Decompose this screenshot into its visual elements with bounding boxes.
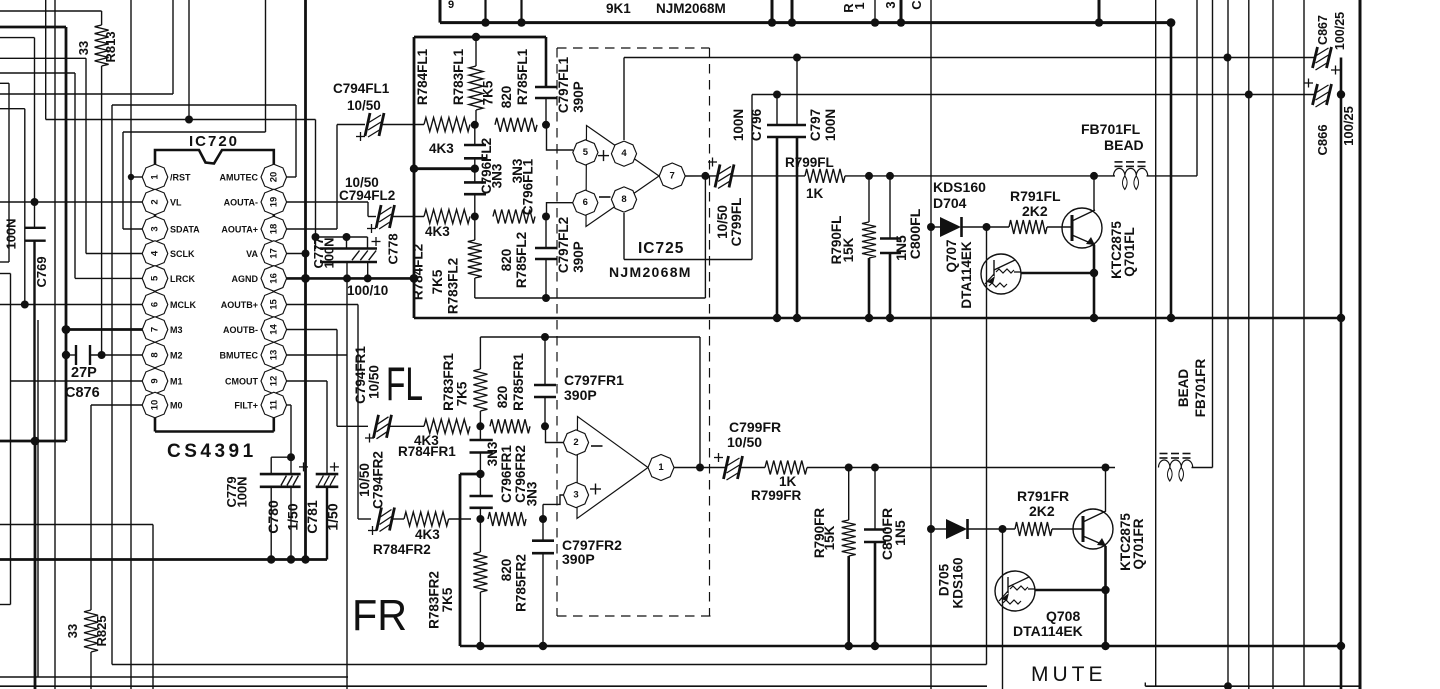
wire pin14 AOUTB- staircase to FR1: [287, 330, 368, 427]
wire right edge trunk x=1360 thick: [1359, 0, 1362, 689]
FR big channel label: [352, 591, 407, 640]
svg-text:R783FL2: R783FL2: [446, 258, 461, 314]
svg-text:C796FL1: C796FL1: [521, 158, 536, 215]
IC720 CS4391 package box: [155, 150, 274, 432]
svg-text:100/25: 100/25: [1341, 106, 1356, 146]
svg-text:2: 2: [150, 199, 161, 204]
IC720 pin 4 SCLK: [142, 241, 195, 267]
wire M1 line x=38: [37, 320, 39, 677]
wire thick drop x=1171: [1170, 23, 1173, 318]
capacitor C794FR1 10/50 electrolytic: [353, 346, 424, 443]
resistor R785FR1 820: [490, 353, 530, 434]
svg-text:R785FL1: R785FL1: [515, 48, 530, 105]
wire FR bead output riser x=1212.5: [1212, 0, 1214, 468]
capacitor C796FR2 3N3: [470, 445, 540, 519]
svg-text:MCLK: MCLK: [170, 300, 196, 310]
wire oct3 input jog: [543, 495, 564, 519]
wire bottom bus y=686.2 right: [1145, 682, 1360, 689]
resistor R799FL 1K: [785, 155, 1115, 201]
resistor R813 33ohm: [76, 11, 118, 66]
svg-text:R825: R825: [94, 615, 109, 646]
svg-text:VL: VL: [170, 198, 182, 208]
upper label fragments at top edge: [448, 0, 924, 13]
wire FL block ground left edge thick x=414: [413, 37, 416, 318]
capacitor C867 100/25 electrolytic: [1313, 12, 1348, 75]
svg-text:1K: 1K: [779, 474, 797, 489]
resistor R799FR 1K: [751, 461, 1115, 504]
svg-text:R785FL2: R785FL2: [514, 232, 529, 288]
svg-text:R783FL1: R783FL1: [451, 48, 466, 105]
svg-text:R784FR2: R784FR2: [373, 542, 431, 557]
svg-text:4K3: 4K3: [425, 224, 450, 239]
capacitor C794FR2 10/50 electrolytic: [357, 451, 404, 535]
upper IC label 9K1 NJM2068M: [606, 1, 726, 16]
svg-text:1: 1: [852, 2, 867, 9]
IC725 pin 7 output: [659, 163, 718, 189]
wire FL analog ground rail y=318 thick: [414, 314, 1345, 322]
junction dot C800FL top: [886, 172, 894, 180]
svg-text:LRCK: LRCK: [170, 274, 195, 284]
svg-text:NJM2068M: NJM2068M: [656, 1, 726, 16]
junction dot thick x=35 y=441: [31, 437, 40, 689]
junction dot FR1 row x=480.4: [476, 422, 484, 430]
svg-text:390P: 390P: [571, 81, 586, 113]
resistor R783FR1 7K5: [441, 337, 487, 426]
svg-text:VA: VA: [246, 249, 258, 259]
svg-text:BMUTEC: BMUTEC: [220, 351, 259, 361]
wire pin11 FILT+ to C779 C780: [271, 405, 295, 474]
capacitor C876 27P on M2 line: [62, 345, 143, 401]
svg-text:/RST: /RST: [170, 173, 191, 183]
transistor Q708 DTA114EK: [995, 571, 1110, 639]
wire pin4 SCLK: [86, 253, 143, 255]
IC720 pin 11 FILT+: [234, 392, 286, 418]
svg-text:10/50: 10/50: [727, 434, 762, 450]
capacitor C866 100/25 electrolytic: [1304, 79, 1356, 156]
svg-text:3N3: 3N3: [485, 441, 500, 466]
svg-text:M1: M1: [170, 377, 183, 387]
svg-text:13: 13: [268, 350, 279, 361]
junction dot FL output x=705.4: [701, 172, 709, 180]
MUTE label: [1031, 663, 1107, 686]
IC720 pin 20 AMUTEC: [220, 164, 287, 190]
junction dot x=189 y=119.5: [185, 0, 193, 124]
op-amp minus sign FR: [591, 445, 603, 447]
wire pin10 M0 via R825: [91, 405, 143, 610]
junction dot FR2 row x=480.4: [476, 515, 484, 523]
resistor R825 33ohm: [65, 610, 109, 689]
resistor R785FL2 820: [493, 210, 535, 289]
wire bottom bus y=686.2 left: [0, 685, 987, 687]
svg-text:10/50: 10/50: [347, 98, 381, 113]
svg-text:4K3: 4K3: [415, 527, 440, 542]
wire net to left edge y=11 feeding R813: [0, 10, 102, 12]
svg-text:3N3: 3N3: [490, 163, 505, 188]
svg-text:FL: FL: [386, 357, 423, 410]
svg-text:KDS160: KDS160: [933, 179, 986, 195]
wire oct6 input jog: [547, 203, 574, 217]
svg-text:3N3: 3N3: [525, 481, 540, 506]
svg-text:100N: 100N: [322, 237, 337, 268]
svg-text:C794FL1: C794FL1: [333, 81, 390, 96]
capacitor C796 100N C797 100N shared plates: [731, 58, 838, 319]
svg-text:390P: 390P: [564, 387, 597, 403]
capacitor C799FR 10/50 electrolytic: [714, 419, 781, 480]
wire mute line FR x=1002.5: [1002, 528, 1004, 689]
svg-text:8: 8: [621, 194, 626, 205]
wire bus x=1273: [1272, 0, 1274, 689]
svg-text:C: C: [909, 0, 924, 10]
IC720 pin 6 MCLK: [142, 292, 196, 318]
IC720 pin 5 LRCK: [142, 266, 195, 292]
wire pin8 supply drop: [623, 213, 625, 260]
svg-text:IC720: IC720: [189, 133, 239, 150]
upper circuit box bottom edge thick y=22.6: [440, 0, 1175, 27]
svg-text:9: 9: [150, 378, 161, 383]
wire supply line B via x=752: [624, 91, 1315, 260]
wire bus x=1304: [1303, 0, 1305, 686]
diode D704 KDS160: [927, 179, 1009, 237]
resistor R791FR 2K2: [1015, 488, 1083, 536]
svg-text:C797FL1: C797FL1: [556, 56, 571, 113]
IC720 pin 19 AOUTA-: [224, 189, 287, 215]
IC725 pin 5: [573, 140, 598, 165]
wire pin5 LRCK: [75, 277, 143, 279]
junction dot FL1 row x=474.8: [471, 121, 479, 129]
IC720 pin 14 AOUTB-: [223, 317, 287, 343]
resistor R783FL1 7K5: [451, 37, 496, 125]
CS4391 label: [167, 441, 257, 462]
svg-text:1N5: 1N5: [892, 520, 908, 546]
svg-text:10: 10: [150, 400, 161, 411]
IC720 pin 7 M3: [142, 317, 182, 343]
svg-text:R785FR2: R785FR2: [514, 554, 529, 612]
IC720 pin 17 VA: [246, 241, 286, 267]
capacitor C769 100N: [4, 218, 50, 287]
svg-text:1: 1: [658, 462, 664, 473]
junction dot FR1 row x=545: [541, 422, 549, 430]
wire VA bus thick x=305.5: [304, 0, 307, 560]
svg-text:FILT+: FILT+: [234, 401, 258, 411]
svg-text:100N: 100N: [731, 109, 746, 141]
resistor R784FR2 4K3: [373, 512, 471, 557]
svg-text:C778: C778: [386, 233, 401, 264]
wire FR feedback top line y=337: [480, 337, 700, 468]
junction dot C800FR top: [871, 464, 879, 472]
svg-text:NJM2068M: NJM2068M: [609, 264, 692, 280]
IC725 NJM2068M dashed outline: [557, 48, 711, 616]
svg-text:7: 7: [150, 327, 161, 332]
svg-text:MUTE: MUTE: [1031, 663, 1107, 686]
svg-text:15K: 15K: [841, 237, 856, 262]
resistor R791FL 2K2: [1009, 188, 1072, 234]
svg-text:3: 3: [883, 1, 898, 8]
capacitor C800FR 1N5: [864, 468, 908, 647]
capacitor C797FR1 390P: [534, 337, 624, 426]
IC725 pin 3: [563, 482, 588, 507]
wire pin17 VA to bus: [287, 250, 310, 258]
svg-text:SCLK: SCLK: [170, 249, 195, 259]
svg-text:D705: D705: [937, 563, 952, 596]
IC720 pin 8 M2: [142, 342, 182, 368]
svg-text:AOUTA-: AOUTA-: [224, 198, 258, 208]
wire thick M3 rail y=441: [0, 440, 66, 443]
resistor R790FL 15K: [829, 176, 876, 318]
junction dot C797FR1 top y=337: [541, 333, 549, 341]
wire node y=237 feeding C777 C778: [312, 233, 368, 249]
junction dot FR2 row x=543: [539, 515, 547, 523]
wire vertical x=131 full height: [130, 0, 132, 689]
junction dot FL2 row x=474.8: [471, 213, 479, 221]
svg-text:820: 820: [499, 249, 514, 272]
resistor R784FL1 4K3: [415, 48, 470, 156]
wire pin12 CMOUT to C781: [287, 381, 327, 474]
svg-text:1K: 1K: [806, 186, 824, 201]
wire bus x=1155: [1155, 0, 1157, 686]
svg-text:15: 15: [268, 299, 279, 310]
wire corner y=83.3 x=9 down to y=262: [0, 83, 9, 262]
wire pin3 SDATA: [123, 228, 143, 230]
IC720 label: [189, 133, 239, 150]
wire corner y=58.3 x=86 (SCLK line): [0, 58, 86, 253]
capacitor C794FL1 10/50 electrolytic: [333, 81, 424, 141]
wire corner y=73 x=75 (LRCK line): [0, 73, 75, 278]
svg-text:C866: C866: [1315, 124, 1330, 155]
IC720 pin 12 CMOUT: [225, 368, 287, 394]
wire pin20 AMUTEC: [287, 105, 296, 177]
svg-text:7K5: 7K5: [481, 80, 496, 105]
svg-text:C796FR1: C796FR1: [499, 445, 514, 503]
wire pin18 AOUTA+ to C794FL1: [287, 125, 365, 230]
svg-text:2: 2: [573, 437, 578, 448]
svg-text:D704: D704: [933, 195, 967, 211]
svg-text:C794FL2: C794FL2: [339, 188, 395, 203]
wire pin16 AGND thick to filter: [287, 274, 419, 283]
capacitor C799FL 10/50 electrolytic: [708, 158, 805, 247]
diode D705 KDS160: [927, 519, 1015, 609]
svg-text:820: 820: [499, 86, 514, 109]
svg-text:FB701FR: FB701FR: [1193, 358, 1208, 417]
svg-text:7K5: 7K5: [455, 381, 470, 406]
wire vertical x=265.5 to SDATA staircase: [123, 0, 266, 229]
wire BMUTEC pin13 riser x=347: [287, 278, 347, 689]
junction dot FL2 row x=546: [542, 213, 550, 221]
svg-text:AMUTEC: AMUTEC: [220, 173, 259, 183]
svg-text:9: 9: [448, 0, 454, 11]
capacitor C800FL 1N5: [880, 176, 923, 318]
wire pin15 AOUTB+ staircase to FR2: [287, 305, 371, 520]
svg-text:7: 7: [670, 171, 675, 182]
resistor R784FL2 4K3: [411, 210, 471, 301]
wire FL feedback bottom line y=298: [475, 176, 706, 298]
op-amp U-FL triangle: [586, 126, 659, 227]
IC725 label: [638, 240, 684, 257]
IC720 pin 10 M0: [142, 392, 182, 418]
svg-text:Q708: Q708: [1046, 608, 1080, 624]
svg-text:AOUTB+: AOUTB+: [221, 300, 258, 310]
capacitor C796FR1 3N3: [470, 426, 515, 503]
wire corner y=273.5 x=10.5 down to y=604.5: [0, 274, 11, 605]
svg-text:5: 5: [150, 275, 161, 281]
svg-text:7K5: 7K5: [430, 269, 445, 294]
wire corner y=37.6 x=34.5 (VL line): [0, 38, 35, 441]
op-amp U-FR triangle: [577, 417, 648, 519]
svg-text:19: 19: [268, 197, 279, 208]
svg-text:FR: FR: [352, 591, 407, 640]
svg-text:33: 33: [76, 41, 91, 55]
junction dot R790FR top: [845, 464, 853, 472]
svg-text:C797FL2: C797FL2: [556, 217, 571, 273]
svg-text:AOUTA+: AOUTA+: [221, 225, 258, 235]
svg-text:C769: C769: [34, 256, 49, 287]
IC720 pin 16 AGND: [232, 266, 287, 292]
svg-text:6: 6: [583, 197, 588, 208]
wire FL block top edge thick y=37: [414, 33, 546, 41]
wire bus x=1248.8: [1248, 0, 1250, 689]
svg-text:M0: M0: [170, 401, 183, 411]
transistor Q701FL KTC2875: [1062, 172, 1137, 318]
wire y=524.5 corner x=153: [0, 525, 153, 689]
IC720 pin 9 M1: [142, 368, 182, 394]
IC720 pin 3 SDATA: [142, 216, 200, 242]
IC725 pin 2: [563, 430, 588, 455]
svg-text:100/25: 100/25: [1333, 12, 1347, 50]
wire AMUTEC mute loop x=112 y=664.5 to D704: [112, 105, 987, 665]
capacitor C777 100N and C778 100/10 shared plates: [311, 233, 401, 298]
svg-text:11: 11: [268, 399, 279, 410]
resistor R785FL1 820: [495, 48, 537, 131]
wire FL bead output riser x=1197 (drawn above): [0, 0, 1, 1]
svg-text:8: 8: [150, 352, 161, 357]
wire pin9 M1: [11, 380, 144, 382]
svg-text:9K1: 9K1: [606, 1, 631, 16]
svg-text:C799FL: C799FL: [729, 198, 744, 247]
wire y=119.5 bus with corner x=45.7 and x=315.5: [46, 0, 316, 249]
svg-text:4K3: 4K3: [429, 141, 454, 156]
wire pin4 supply riser: [623, 58, 625, 141]
svg-text:R791FR: R791FR: [1017, 488, 1069, 504]
junction dot FR mid ground x=480.4 y=474: [476, 453, 484, 497]
wire mute bus x=931: [930, 0, 932, 689]
transistor Q707 DTA114EK: [944, 239, 1098, 308]
svg-text:C780: C780: [265, 500, 281, 534]
svg-text:BEAD: BEAD: [1104, 137, 1144, 153]
svg-text:5: 5: [583, 147, 589, 158]
wire supply line A y=57.5: [624, 54, 1315, 62]
capacitor C797FR2 390P: [532, 519, 622, 646]
resistor R785FR2 820: [488, 512, 529, 612]
svg-text:CS4391: CS4391: [167, 441, 257, 462]
svg-text:CMOUT: CMOUT: [225, 377, 258, 387]
svg-text:DTA114EK: DTA114EK: [1013, 623, 1083, 639]
IC725 pin 4: [611, 141, 636, 166]
svg-text:C796: C796: [749, 108, 764, 141]
wire corner y=108.7 x=24.8 (MCLK line): [0, 109, 25, 305]
svg-text:C876: C876: [65, 385, 100, 401]
transistor Q701FR KTC2875: [1073, 464, 1146, 647]
svg-text:27P: 27P: [71, 365, 97, 381]
svg-text:1/50: 1/50: [285, 503, 301, 530]
svg-text:C800FL: C800FL: [907, 208, 923, 259]
wire pin2 VL: [0, 198, 143, 206]
svg-text:C799FR: C799FR: [729, 419, 781, 435]
svg-text:100N: 100N: [4, 218, 19, 249]
svg-text:AOUTB-: AOUTB-: [223, 325, 258, 335]
svg-text:15K: 15K: [822, 525, 837, 550]
svg-text:R799FR: R799FR: [751, 488, 802, 503]
resistor R790FR 15K: [812, 468, 856, 647]
svg-text:R785FR1: R785FR1: [511, 353, 526, 411]
wire thick digital bus corner y=27 x=66: [0, 27, 66, 441]
svg-text:14: 14: [268, 324, 279, 335]
IC725 pin 8: [611, 187, 636, 212]
svg-text:Q707: Q707: [944, 239, 959, 272]
wire oct5 input jog: [547, 125, 574, 150]
junction dot FR output x=700: [696, 464, 704, 472]
resistor R783FR2 7K5: [427, 519, 488, 646]
svg-text:C797: C797: [808, 109, 823, 141]
ferrite bead FB701FR: [1159, 358, 1213, 481]
IC720 pin 18 AOUTA+: [221, 216, 286, 242]
resistor R783FL2 7K5: [430, 217, 482, 315]
svg-text:10/50: 10/50: [715, 205, 730, 239]
svg-text:820: 820: [495, 386, 510, 409]
svg-text:R791FL: R791FL: [1010, 188, 1061, 204]
junction dot FL mid ground x=474.8 y=168.7: [471, 158, 479, 182]
wire horizontal y=94 to x=173: [0, 0, 173, 94]
svg-text:KDS160: KDS160: [951, 557, 966, 608]
wire R813 bottom lead x=101.6: [101, 66, 103, 355]
IC725 pin 1 output: [648, 455, 726, 481]
IC720 pin 2 VL: [142, 189, 182, 215]
wire thick digital ground rail y=559.5: [0, 555, 327, 563]
svg-text:100/10: 100/10: [347, 283, 388, 298]
capacitor C794FL2 10/50 electrolytic: [339, 175, 424, 233]
svg-text:R784FL1: R784FL1: [415, 48, 430, 105]
wire oct2 input jog: [546, 426, 565, 442]
op-amp plus sign FL: [598, 150, 609, 161]
wire vertical x=55 full height: [54, 0, 56, 689]
svg-text:33: 33: [65, 624, 80, 638]
capacitor C797FL2 390P: [535, 217, 586, 303]
svg-text:390P: 390P: [562, 551, 595, 567]
svg-text:R784FR1: R784FR1: [398, 444, 456, 459]
op-amp plus sign FR: [590, 484, 601, 495]
capacitor C797FL1 390P: [535, 37, 586, 125]
wire FR ground rail y=646 thick: [460, 642, 1345, 650]
svg-text:6: 6: [150, 302, 161, 307]
svg-text:4: 4: [621, 148, 627, 159]
capacitor C778 electrolytic wire and 100/10 label area: [0, 0, 1, 1]
svg-text:820: 820: [499, 559, 514, 582]
svg-text:R799FL: R799FL: [785, 155, 834, 170]
svg-text:FB701FL: FB701FL: [1081, 121, 1141, 137]
resistor R784FR1 4K3: [398, 419, 470, 459]
wire pin19 AOUTA- to C794FL2: [287, 202, 376, 217]
svg-text:10/50: 10/50: [367, 365, 382, 399]
NJM2068M label: [609, 264, 692, 280]
svg-text:12: 12: [268, 376, 279, 387]
svg-text:IC725: IC725: [638, 240, 684, 257]
svg-text:1/50: 1/50: [325, 503, 341, 530]
capacitor C796FL1 3N3: [464, 158, 536, 217]
junction dot R790FL top: [865, 172, 873, 180]
svg-text:Q701FL: Q701FL: [1122, 227, 1137, 277]
ferrite bead FB701FL: [1081, 0, 1197, 189]
wire pin1 /RST: [128, 174, 143, 180]
svg-text:100N: 100N: [823, 109, 838, 141]
svg-text:C794FR2: C794FR2: [371, 451, 386, 509]
